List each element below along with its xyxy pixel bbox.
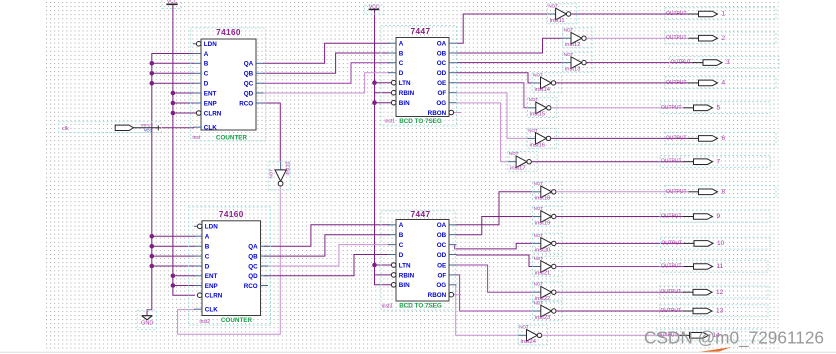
output pin OUTPUT 6 (665, 132, 776, 144)
inverter inst24 NOT (518, 325, 547, 346)
svg-text:QD: QD (244, 90, 254, 97)
wire OA2 to inst18 (456, 192, 533, 225)
svg-text:OUTPUT: OUTPUT (661, 159, 682, 165)
svg-text:C: C (205, 254, 210, 261)
svg-text:OUTPUT: OUTPUT (661, 308, 682, 314)
output pin OUTPUT 1 (665, 8, 776, 20)
svg-text:OUTPUT: OUTPUT (666, 80, 687, 86)
svg-text:ENT: ENT (205, 273, 218, 280)
inverter inst11 NOT (547, 3, 576, 24)
svg-text:inst12: inst12 (565, 42, 580, 48)
watermark orange swoosh (0, 347, 836, 352)
svg-text:6: 6 (722, 135, 726, 142)
svg-text:CLK: CLK (204, 125, 217, 132)
svg-text:OUTPUT: OUTPUT (661, 214, 682, 220)
svg-text:OG: OG (436, 282, 446, 289)
svg-text:inst18: inst18 (535, 196, 550, 202)
svg-text:A: A (399, 222, 404, 229)
svg-text:VCC: VCC (144, 127, 153, 132)
wire OA1 to inst11 (457, 14, 548, 43)
wire from inverter to OUTPUT pin 10 (556, 242, 685, 244)
svg-text:A: A (205, 234, 210, 241)
svg-text:CLK: CLK (205, 307, 218, 314)
output pin OUTPUT 7 (660, 156, 770, 168)
svg-text:NOT: NOT (564, 52, 574, 57)
svg-text:inst11: inst11 (550, 18, 565, 24)
svg-text:inst14: inst14 (535, 87, 551, 93)
junction dots VCC net 1 (171, 91, 176, 288)
svg-text:OC: OC (437, 242, 447, 249)
wire OE2 to inst22 (456, 265, 533, 292)
wire OB2 to inst19 (456, 217, 533, 235)
wire bus net A-D (counters A,B,C,D tied, down to GND) (147, 54, 195, 316)
svg-text:OE: OE (437, 80, 446, 87)
svg-text:NOT: NOT (519, 325, 529, 330)
wire from inverter to OUTPUT pin 9 (556, 216, 685, 218)
wire from inverter to OUTPUT pin 3 (586, 62, 694, 64)
svg-text:LDN: LDN (204, 41, 217, 48)
inverter inst19 NOT (533, 206, 562, 227)
svg-text:CLRN: CLRN (205, 293, 223, 300)
svg-text:RCO: RCO (239, 100, 253, 107)
svg-text:OE: OE (437, 262, 446, 269)
svg-text:OUTPUT: OUTPUT (661, 289, 682, 295)
svg-text:B: B (205, 244, 210, 251)
wire VCC net 2 (LTN/RBIN/BIN of both 7447s) (375, 10, 392, 285)
svg-text:NOT: NOT (564, 28, 574, 33)
svg-text:clk: clk (62, 126, 69, 132)
output pin OUTPUT 11 (660, 260, 768, 272)
svg-text:QC: QC (244, 81, 254, 88)
svg-text:7447: 7447 (411, 27, 431, 36)
svg-text:inst13: inst13 (565, 67, 580, 73)
svg-text:inst1: inst1 (385, 119, 396, 125)
wire OC1 to inst13 (457, 62, 564, 64)
svg-text:QA: QA (244, 61, 254, 68)
svg-text:13: 13 (716, 308, 724, 315)
svg-text:NOT: NOT (528, 128, 538, 133)
svg-text:ENP: ENP (204, 100, 217, 107)
svg-text:7: 7 (717, 158, 721, 165)
svg-text:2: 2 (722, 35, 726, 42)
svg-text:inst21: inst21 (535, 270, 550, 276)
svg-text:D: D (204, 81, 209, 88)
power VCC symbol 2 (365, 5, 384, 15)
output pin OUTPUT 5 (660, 102, 770, 114)
wire RCO1 down to inverter inst10 (263, 103, 280, 162)
inverter inst22 NOT (533, 282, 562, 303)
svg-text:NOT: NOT (534, 181, 544, 186)
output pin OUTPUT 3 (670, 56, 780, 68)
power VCC symbol 1 (162, 0, 182, 9)
svg-text:OD: OD (437, 70, 447, 77)
wire from inverter to OUTPUT pin 4 (556, 82, 690, 84)
wire from inverter to OUTPUT pin 11 (556, 266, 685, 268)
svg-text:inst20: inst20 (535, 247, 550, 253)
output pin OUTPUT 10 (661, 237, 771, 249)
wire QB2 to 7447-2 B (264, 235, 390, 256)
output pin OUTPUT 14 (656, 329, 762, 341)
svg-text:OG: OG (436, 100, 446, 107)
svg-text:NOT: NOT (534, 206, 544, 211)
svg-text:9: 9 (717, 213, 721, 220)
wire from inverter to OUTPUT pin 13 (556, 310, 684, 312)
inverter inst10 NOT rotated down (268, 162, 291, 190)
svg-text:OUTPUT: OUTPUT (661, 105, 682, 111)
wire from inverter to OUTPUT pin 8 (556, 191, 690, 193)
svg-text:OUTPUT: OUTPUT (666, 35, 687, 41)
svg-text:NOT: NOT (534, 300, 544, 305)
svg-text:RCO: RCO (244, 283, 258, 290)
svg-text:RBON: RBON (428, 110, 447, 117)
svg-text:inst2: inst2 (200, 319, 211, 325)
svg-text:inst: inst (193, 135, 201, 141)
svg-text:D: D (399, 252, 404, 259)
wire inverter inst10 output loop to counter2 CLK (178, 186, 281, 334)
inverter inst20 NOT (533, 233, 562, 254)
svg-text:8: 8 (722, 188, 726, 195)
svg-text:QA: QA (248, 244, 258, 251)
svg-text:74160: 74160 (219, 210, 244, 219)
svg-text:OF: OF (437, 272, 446, 279)
svg-text:C: C (204, 71, 209, 78)
svg-text:OB: OB (437, 232, 447, 239)
wire OE1 to inst15 (457, 83, 528, 108)
svg-text:B: B (204, 61, 209, 68)
svg-text:GND: GND (141, 321, 153, 327)
svg-text:ENT: ENT (204, 90, 217, 97)
output pin OUTPUT 2 (665, 32, 776, 44)
junction dots bus net (150, 61, 155, 268)
svg-text:QC: QC (248, 263, 258, 270)
wire QD1 to 7447-1 D (263, 73, 390, 93)
svg-text:OA: OA (437, 222, 447, 229)
wire OF1 to inst16 (457, 93, 528, 138)
svg-text:inst15: inst15 (530, 112, 545, 118)
svg-text:RBIN: RBIN (399, 272, 415, 279)
svg-text:A: A (399, 41, 404, 48)
svg-text:BCD TO 7SEG: BCD TO 7SEG (399, 118, 442, 125)
wire OB1 to inst12 (457, 38, 564, 53)
watermark text (644, 328, 824, 349)
svg-text:inst17: inst17 (510, 166, 525, 172)
wire OG1 to inst17 (457, 103, 509, 162)
svg-text:inst19: inst19 (535, 220, 550, 226)
wire OD1 to inst14 (457, 73, 533, 83)
wire QC2 to 7447-2 C (264, 245, 390, 266)
wire OD2 to inst21 (456, 255, 533, 267)
svg-text:7447: 7447 (411, 210, 431, 219)
inverter inst23 NOT (533, 300, 562, 321)
wire from inverter to OUTPUT pin 2 (586, 37, 689, 39)
svg-text:OC: OC (437, 60, 447, 67)
svg-text:NOT: NOT (534, 282, 544, 287)
svg-text:NOT: NOT (269, 169, 274, 179)
svg-text:10: 10 (717, 240, 725, 247)
svg-text:RBIN: RBIN (399, 90, 415, 97)
inverter inst21 NOT (533, 256, 562, 277)
wire from inverter to OUTPUT pin 14 (542, 334, 681, 336)
svg-text:inst16: inst16 (530, 142, 545, 148)
inverter inst13 NOT (563, 52, 592, 73)
svg-text:BCD TO 7SEG: BCD TO 7SEG (399, 303, 442, 310)
svg-text:OUTPUT: OUTPUT (661, 264, 682, 270)
svg-text:LDN: LDN (205, 224, 218, 231)
svg-text:NOT: NOT (509, 151, 519, 156)
wire QC1 to 7447-1 C (263, 63, 390, 83)
wire OC2 to inst20 (455, 243, 533, 249)
svg-text:NOT: NOT (533, 72, 543, 77)
wire QD2 to 7447-2 D (264, 255, 390, 276)
svg-text:5: 5 (717, 104, 721, 111)
svg-text:3: 3 (726, 59, 730, 66)
svg-text:OB: OB (437, 50, 447, 57)
wire from inverter to OUTPUT pin 7 (531, 161, 684, 163)
wire from inverter to OUTPUT pin 5 (551, 107, 685, 109)
output pin OUTPUT 9 (660, 210, 770, 222)
svg-text:NOT: NOT (534, 256, 544, 261)
wire from inverter to OUTPUT pin 6 (551, 137, 690, 139)
output pin OUTPUT 12 (660, 286, 769, 298)
svg-text:OD: OD (437, 252, 447, 259)
svg-text:BIN: BIN (399, 282, 410, 289)
svg-text:inst10: inst10 (286, 162, 292, 176)
inverter inst12 NOT (563, 28, 592, 48)
svg-text:LTN: LTN (399, 262, 411, 269)
svg-text:OA: OA (437, 41, 447, 48)
svg-text:B: B (399, 50, 404, 57)
svg-text:4: 4 (722, 80, 726, 87)
input pin clk INPUT (59, 122, 162, 133)
svg-text:D: D (399, 70, 404, 77)
svg-text:C: C (399, 60, 404, 67)
wire QA1 to 7447-1 A (263, 43, 390, 63)
svg-text:RBON: RBON (428, 292, 447, 299)
inverter inst15 NOT (528, 97, 557, 118)
decoder inst3 7447 #2 (381, 210, 461, 310)
svg-text:QB: QB (248, 254, 258, 261)
wire QB1 to 7447-1 B (263, 53, 390, 73)
wire QA2 to 7447-2 A (264, 225, 390, 246)
inverter inst16 NOT (527, 128, 556, 149)
inverter inst18 NOT (533, 181, 562, 202)
wire OG2 to inst24 (456, 285, 519, 336)
inverter inst17 NOT (508, 151, 537, 172)
wire from inverter to OUTPUT pin 12 (556, 291, 684, 293)
svg-text:B: B (399, 232, 404, 239)
svg-text:NOT: NOT (534, 233, 544, 238)
svg-text:D: D (205, 263, 210, 270)
svg-text:OUTPUT: OUTPUT (666, 11, 687, 17)
svg-text:NOT: NOT (529, 97, 539, 102)
svg-text:OUTPUT: OUTPUT (666, 189, 687, 195)
svg-text:CLRN: CLRN (204, 110, 222, 117)
decoder inst1 7447 #1 (381, 26, 461, 127)
output pin OUTPUT 4 (665, 77, 776, 89)
svg-text:12: 12 (716, 289, 724, 296)
svg-text:74160: 74160 (216, 28, 241, 37)
svg-text:OF: OF (437, 90, 446, 97)
svg-text:BIN: BIN (399, 100, 410, 107)
svg-text:QB: QB (244, 71, 254, 78)
svg-text:OUTPUT: OUTPUT (671, 60, 692, 66)
wire from inverter to OUTPUT pin 1 (571, 13, 690, 15)
svg-text:COUNTER: COUNTER (221, 317, 253, 324)
svg-text:CSDN @m0_72961126: CSDN @m0_72961126 (644, 328, 824, 349)
counter inst 74160 #1 (191, 28, 266, 142)
svg-text:LTN: LTN (399, 80, 411, 87)
counter inst2 74160 #2 (189, 207, 271, 325)
svg-text:inst23: inst23 (535, 315, 550, 321)
ground GND symbol (137, 310, 156, 329)
svg-text:inst24: inst24 (521, 339, 537, 345)
svg-text:A: A (204, 51, 209, 58)
output pin OUTPUT 8 (665, 186, 776, 198)
svg-text:11: 11 (717, 263, 724, 270)
svg-text:COUNTER: COUNTER (216, 134, 248, 141)
svg-text:NOT: NOT (548, 3, 558, 8)
inverter inst14 NOT (532, 72, 561, 93)
wire VCC net 1 (ENT/ENP/CLRN of both counters) (173, 5, 197, 296)
svg-text:1: 1 (722, 11, 726, 18)
svg-text:QD: QD (248, 273, 258, 280)
svg-text:inst3: inst3 (382, 303, 393, 309)
wire clk net from input pin to counter1 CLK (158, 127, 194, 129)
svg-text:C: C (399, 242, 404, 249)
output pin OUTPUT 13 (660, 305, 769, 317)
svg-text:OUTPUT: OUTPUT (662, 240, 683, 246)
wire OF2 to inst23 (456, 275, 533, 311)
svg-text:ENP: ENP (205, 283, 218, 290)
junction dots VCC net 2 (372, 80, 377, 267)
svg-text:OUTPUT: OUTPUT (666, 135, 687, 141)
